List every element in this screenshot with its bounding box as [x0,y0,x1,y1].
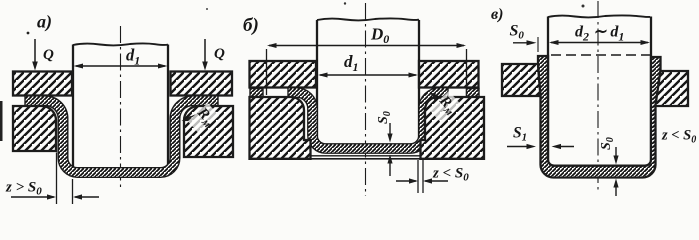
blank holder right (a) [171,72,233,96]
punch a (broken wavy top) [73,43,168,168]
centerline of punch v [597,1,599,193]
ironing die left (v) [502,64,540,96]
gap dimension z > S0 (a) [5,153,99,205]
dimension d1 (b) [318,52,418,78]
ironed cup wall + bottom (v) [538,56,661,178]
hidden cup rim line (dashed) inside punch (v) [551,54,651,56]
svg-text:d1: d1 [126,46,140,68]
svg-text:z > S0: z > S0 [5,180,42,198]
dimension d2 ~ d1 (v) [549,24,650,46]
svg-text:Q: Q [43,47,54,63]
svg-text:z < S0: z < S0 [661,128,696,146]
small hatched spacer right of blank edge (b) [467,89,480,98]
svg-text:Q: Q [214,46,225,62]
workpiece sheet / cup (b) [288,93,448,149]
centerline of punch a [120,26,122,190]
gap dimension z < S0 (b) [396,160,469,193]
svg-text:в): в) [491,6,503,23]
wall thickness S0 label top-left (v) [510,23,539,53]
svg-text:а): а) [37,12,52,33]
speck dot left of punch top [27,32,30,35]
die base line (b) [310,158,421,160]
die radius label Rm (a) with leader arrow [182,103,220,134]
svg-text:z < S0: z < S0 [432,166,469,184]
blank holder left (a) [13,72,72,96]
die block right (b) with stepped wall [421,97,485,159]
blank holder right (b) [419,61,479,88]
svg-text:d2 ∼ d1: d2 ∼ d1 [575,24,624,44]
small hatched spacer left of blank edge (b) [250,89,263,98]
svg-text:S0: S0 [510,23,525,42]
blank holder left (b) [250,61,317,88]
svg-text:S0: S0 [599,137,616,150]
force arrow Q left [32,39,54,71]
bottom thickness S0 (v): rotated label and arrows [599,137,619,196]
punch v (broken wavy top) [548,15,651,165]
die block right (a) [184,106,233,157]
force arrow Q right [202,39,225,71]
dimension D0 (b) [267,25,467,98]
svg-text:d1: d1 [344,52,359,74]
die radius label Rm (b) with leader arrow [429,91,460,122]
ironing die right (v) [655,71,688,106]
dimension d1 (a) [74,46,168,69]
D0 extension line overlays (b) [266,61,268,88]
die block left (b) with stepped wall [250,97,311,159]
punch b (broken wavy top) [317,18,419,144]
ejector pad line under cup bottom (b) [310,155,421,157]
svg-text:б): б) [243,15,259,36]
svg-text:S0: S0 [376,111,393,124]
svg-text:D0: D0 [370,25,389,47]
scanner smudge at left edge [0,101,3,141]
sheet end faces (b) [287,87,289,98]
centerline of punch b [365,3,367,196]
die block left (a) [13,106,56,151]
svg-text:S1: S1 [513,125,527,144]
small specks (scan noise) [344,2,346,4]
sheet end faces (a) [24,95,26,106]
thinned wall S1 dimension (v) [507,125,574,150]
sheet thickness S0 (b): rotated label and arrows [376,111,393,176]
workpiece sheet / drawn cup (a): black edge + dense hatch core [25,101,218,173]
